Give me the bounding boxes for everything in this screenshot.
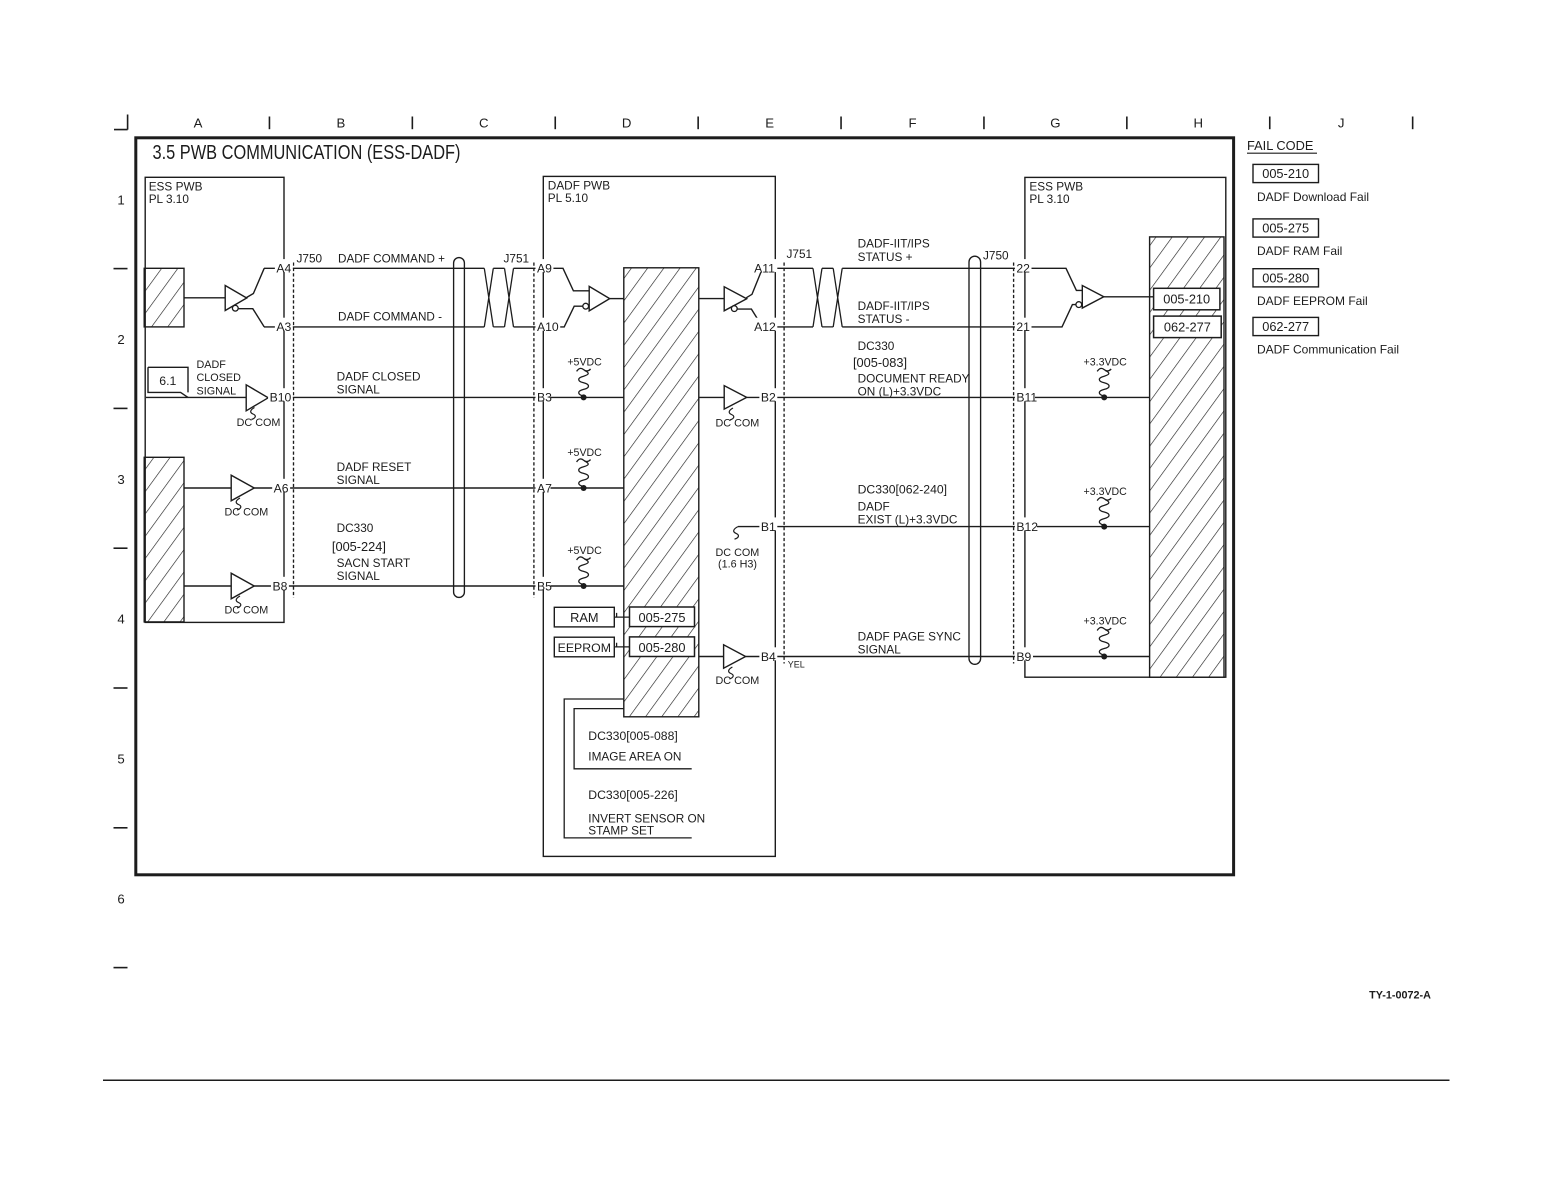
svg-text:2: 2 bbox=[117, 332, 124, 347]
wire block to buffer A6 bbox=[184, 487, 231, 489]
svg-text:DADF-IIT/IPS: DADF-IIT/IPS bbox=[858, 299, 930, 313]
svg-text:A11: A11 bbox=[754, 262, 775, 276]
svg-text:SIGNAL: SIGNAL bbox=[337, 473, 381, 487]
svg-text:22: 22 bbox=[1016, 262, 1030, 276]
dc com curl U9 bbox=[729, 667, 734, 679]
svg-text:5: 5 bbox=[117, 752, 124, 767]
fail box 005-280 bbox=[630, 637, 695, 657]
svg-text:DADF-IIT/IPS: DADF-IIT/IPS bbox=[858, 237, 930, 251]
inversion bubble U2 bbox=[583, 303, 589, 309]
svg-text:+3.3VDC: +3.3VDC bbox=[1084, 357, 1128, 369]
hatched block DADF internal bbox=[624, 268, 699, 717]
wire B9 to block with +3.3VDC pullup bbox=[1033, 656, 1150, 658]
svg-text:SACN START: SACN START bbox=[337, 556, 411, 570]
pin A4 bbox=[275, 259, 293, 272]
svg-text:005-275: 005-275 bbox=[639, 610, 686, 625]
bottom separator rule bbox=[103, 1079, 1450, 1081]
svg-text:J750: J750 bbox=[983, 249, 1009, 263]
svg-text:J751: J751 bbox=[787, 247, 813, 261]
pin 22 bbox=[1015, 259, 1032, 272]
inversion bubble U1 bbox=[232, 305, 238, 311]
svg-text:B5: B5 bbox=[537, 579, 552, 593]
svg-text:IMAGE AREA ON: IMAGE AREA ON bbox=[588, 750, 681, 764]
dc com curl U3 bbox=[251, 408, 256, 420]
pin B2 bbox=[759, 388, 777, 401]
svg-text:STAMP SET: STAMP SET bbox=[588, 824, 654, 838]
dc com curl U7 bbox=[729, 408, 734, 420]
svg-text:DC COM: DC COM bbox=[716, 418, 760, 430]
svg-text:DADF RESET: DADF RESET bbox=[337, 460, 412, 474]
svg-text:DADF: DADF bbox=[197, 359, 227, 371]
pin A9 bbox=[536, 259, 554, 272]
svg-text:062-277: 062-277 bbox=[1262, 319, 1309, 334]
op-amp U8 line receiver ESS bbox=[1082, 286, 1104, 309]
svg-text:DADF: DADF bbox=[858, 500, 890, 514]
svg-text:RAM: RAM bbox=[570, 610, 598, 625]
main border frame bbox=[136, 138, 1234, 875]
fan-out to A12 (inverted) bbox=[737, 309, 762, 327]
twisted pair crossing right bbox=[813, 268, 842, 327]
svg-text:CLOSED: CLOSED bbox=[197, 372, 242, 384]
svg-text:DC330[062-240]: DC330[062-240] bbox=[858, 483, 947, 497]
svg-text:4: 4 bbox=[117, 612, 124, 627]
op-amp U4 buffer DADF RESET bbox=[231, 475, 254, 501]
op-amp U1 line driver ESS bbox=[225, 286, 247, 311]
op-amp U2 line receiver DADF bbox=[589, 286, 610, 311]
op-amp U5 buffer SCAN START bbox=[231, 573, 254, 599]
svg-text:G: G bbox=[1050, 116, 1060, 131]
svg-text:DC COM: DC COM bbox=[237, 417, 281, 429]
pin B4 bbox=[759, 647, 777, 660]
svg-text:PL 5.10: PL 5.10 bbox=[548, 191, 589, 205]
svg-text:A12: A12 bbox=[754, 320, 776, 334]
svg-text:A7: A7 bbox=[537, 481, 552, 495]
svg-text:DC COM: DC COM bbox=[225, 605, 269, 617]
svg-text:PL 3.10: PL 3.10 bbox=[1029, 192, 1070, 206]
pin A6 bbox=[272, 479, 290, 492]
svg-text:H: H bbox=[1194, 116, 1204, 131]
fan-in from A10 (inverted) bbox=[556, 306, 582, 327]
svg-text:[005-224]: [005-224] bbox=[332, 539, 386, 554]
fail code box 005-275 bbox=[1253, 219, 1319, 237]
svg-text:ON (L)+3.3VDC: ON (L)+3.3VDC bbox=[858, 384, 942, 398]
svg-text:005-280: 005-280 bbox=[639, 640, 686, 655]
dc com curl U5 bbox=[236, 596, 241, 608]
svg-text:B8: B8 bbox=[272, 579, 287, 593]
wire B4 to B9 DADF PAGE SYNC SIGNAL bbox=[746, 656, 1017, 658]
svg-text:1: 1 bbox=[117, 192, 124, 207]
DADF PWB box PL 5.10 bbox=[543, 176, 775, 856]
svg-text:DC COM: DC COM bbox=[716, 675, 760, 687]
wire B10 to B3 DADF CLOSED SIGNAL bbox=[268, 396, 537, 398]
resistor +5VDC pullup at B3 bbox=[551, 396, 624, 398]
svg-text:A4: A4 bbox=[276, 262, 291, 276]
svg-text:6.1: 6.1 bbox=[159, 374, 176, 388]
svg-text:B4: B4 bbox=[761, 650, 776, 664]
pin A7 bbox=[536, 479, 554, 492]
fail code box 062-277 bbox=[1253, 317, 1319, 335]
svg-text:3.5 PWB COMMUNICATION (ESS-DAD: 3.5 PWB COMMUNICATION (ESS-DADF) bbox=[153, 141, 461, 164]
connector J751 right dashed line bbox=[783, 263, 785, 664]
column tick marks bbox=[268, 117, 270, 130]
svg-text:SIGNAL: SIGNAL bbox=[337, 569, 381, 583]
svg-text:DADF CLOSED: DADF CLOSED bbox=[337, 370, 421, 384]
svg-text:SIGNAL: SIGNAL bbox=[858, 642, 902, 656]
pin B10 bbox=[268, 388, 293, 401]
wire block to buffer B8 bbox=[184, 585, 231, 587]
svg-text:F: F bbox=[908, 116, 916, 131]
svg-text:B12: B12 bbox=[1016, 520, 1038, 534]
svg-text:DADF Communication Fail: DADF Communication Fail bbox=[1257, 343, 1399, 357]
svg-text:SIGNAL: SIGNAL bbox=[337, 383, 381, 397]
RAM box bbox=[554, 607, 614, 627]
op-amp U3 buffer DADF CLOSED bbox=[246, 385, 268, 411]
svg-text:005-275: 005-275 bbox=[1262, 221, 1309, 236]
pin B3 bbox=[536, 388, 554, 401]
svg-text:DADF COMMAND -: DADF COMMAND - bbox=[338, 310, 442, 324]
wire A6 to A7 DADF RESET SIGNAL bbox=[254, 487, 537, 489]
inversion bubble U8 bbox=[1076, 302, 1082, 308]
svg-text:DC330: DC330 bbox=[337, 521, 374, 535]
svg-text:EXIST (L)+3.3VDC: EXIST (L)+3.3VDC bbox=[858, 513, 958, 527]
op-amp U7 buffer DOCUMENT READY bbox=[724, 386, 747, 410]
pin A3 bbox=[275, 318, 293, 331]
wire DADF block to driver U6 bbox=[699, 298, 724, 300]
svg-text:+5VDC: +5VDC bbox=[567, 545, 602, 557]
svg-text:E: E bbox=[765, 116, 774, 131]
svg-text:[005-083]: [005-083] bbox=[853, 355, 907, 370]
pin 21 bbox=[1015, 318, 1032, 331]
svg-text:DADF COMMAND +: DADF COMMAND + bbox=[338, 251, 445, 265]
fail code box 005-280 bbox=[1253, 269, 1319, 287]
op-amp U9 buffer PAGE SYNC bbox=[724, 645, 746, 669]
svg-text:YEL: YEL bbox=[788, 660, 805, 670]
svg-text:DC330[005-226]: DC330[005-226] bbox=[588, 788, 677, 802]
svg-text:DC330: DC330 bbox=[858, 339, 895, 353]
pin B9 bbox=[1015, 647, 1033, 660]
connector J750 left dashed line bbox=[293, 263, 295, 598]
svg-text:STATUS +: STATUS + bbox=[858, 250, 913, 264]
svg-text:FAIL CODE: FAIL CODE bbox=[1247, 138, 1313, 153]
wire B12 to block with +3.3VDC pullup bbox=[1037, 526, 1150, 528]
svg-text:DC COM: DC COM bbox=[225, 507, 269, 519]
hatched block ESS left upper bbox=[144, 268, 184, 327]
wire RAM to 005-275 bbox=[614, 613, 629, 617]
svg-text:J: J bbox=[1338, 116, 1345, 131]
dc com source curl B1 bbox=[734, 527, 739, 540]
svg-text:A9: A9 bbox=[537, 262, 552, 276]
fan-in from A9 bbox=[552, 268, 590, 291]
row tick marks bbox=[114, 268, 128, 270]
svg-text:(1.6 H3): (1.6 H3) bbox=[718, 559, 757, 571]
wire 6.1 to buffer bbox=[146, 396, 246, 398]
svg-text:21: 21 bbox=[1016, 320, 1030, 334]
pin A12 bbox=[753, 318, 778, 331]
pin B12 bbox=[1015, 517, 1040, 530]
svg-text:A: A bbox=[194, 116, 203, 131]
svg-text:D: D bbox=[622, 116, 632, 131]
wire DADF block to buffer B4 bbox=[699, 656, 724, 658]
svg-text:A6: A6 bbox=[274, 481, 289, 495]
wire B8 to B5 SACN START SIGNAL bbox=[254, 585, 537, 587]
svg-text:DC330[005-088]: DC330[005-088] bbox=[588, 729, 677, 743]
svg-text:EEPROM: EEPROM bbox=[558, 641, 611, 655]
fail code box 005-210 bbox=[1253, 164, 1319, 182]
svg-text:B2: B2 bbox=[761, 391, 776, 405]
svg-text:PL 3.10: PL 3.10 bbox=[149, 192, 190, 206]
svg-text:005-210: 005-210 bbox=[1163, 292, 1210, 307]
cable shield left bbox=[454, 258, 465, 598]
svg-text:B9: B9 bbox=[1016, 650, 1031, 664]
ESS PWB right box PL 3.10 bbox=[1025, 177, 1226, 677]
connector J751 left dashed line bbox=[533, 263, 535, 598]
wire DADF block to buffer B2 bbox=[699, 396, 724, 398]
svg-text:B: B bbox=[337, 116, 346, 131]
svg-text:C: C bbox=[479, 116, 489, 131]
wire B1 to B12 DADF EXIST bbox=[738, 526, 1017, 528]
corner mark top-left bbox=[114, 115, 128, 130]
ESS PWB left box PL 3.10 bbox=[145, 177, 284, 622]
op-amp U6 line driver DADF bbox=[724, 287, 747, 311]
pin A11 bbox=[753, 259, 778, 272]
wire DADF-IIT/IPS STATUS + (A11 to 22) bbox=[776, 267, 813, 269]
EEPROM box bbox=[554, 637, 614, 657]
wire B2 to B11 DOCUMENT READY bbox=[747, 396, 1017, 398]
callout bracket IMAGE AREA ON bbox=[574, 709, 692, 769]
svg-text:6: 6 bbox=[117, 891, 124, 906]
wire DADF COMMAND + (A4 to A9) bbox=[264, 267, 484, 269]
resistor +5VDC pullup at A7 bbox=[551, 487, 624, 489]
svg-text:DADF Download Fail: DADF Download Fail bbox=[1257, 190, 1369, 204]
wire U8 output to 005-210 box bbox=[1104, 296, 1154, 298]
svg-text:DADF EEPROM Fail: DADF EEPROM Fail bbox=[1257, 294, 1368, 308]
fan-out to A3 (inverted) bbox=[238, 309, 264, 327]
svg-text:SIGNAL: SIGNAL bbox=[197, 385, 237, 397]
wire EEPROM to 005-280 bbox=[614, 643, 629, 647]
svg-text:J751: J751 bbox=[504, 251, 530, 265]
pin A10 bbox=[536, 318, 561, 331]
callout bracket INVERT SENSOR ON STAMP SET bbox=[564, 699, 692, 838]
pin B1 bbox=[759, 517, 777, 530]
wire DADF COMMAND - (A3 to A10) bbox=[264, 326, 484, 328]
svg-text:DOCUMENT READY: DOCUMENT READY bbox=[858, 371, 970, 385]
svg-text:DADF PAGE SYNC: DADF PAGE SYNC bbox=[858, 629, 962, 643]
wire U2 output to DADF block bbox=[610, 298, 624, 300]
dc com curl U4 bbox=[236, 498, 241, 510]
svg-text:062-277: 062-277 bbox=[1164, 319, 1211, 334]
hatched block ESS right internal bbox=[1150, 237, 1224, 677]
svg-text:B3: B3 bbox=[537, 391, 552, 405]
svg-text:005-210: 005-210 bbox=[1262, 166, 1309, 181]
connector J750 right dashed line bbox=[1013, 263, 1015, 664]
svg-text:+3.3VDC: +3.3VDC bbox=[1084, 486, 1128, 498]
svg-text:A10: A10 bbox=[537, 320, 559, 334]
svg-text:STATUS -: STATUS - bbox=[858, 312, 910, 326]
pin B11 bbox=[1015, 388, 1040, 401]
svg-text:+5VDC: +5VDC bbox=[567, 447, 602, 459]
wire from hatched block to driver bbox=[184, 297, 225, 299]
resistor +5VDC pullup at B5 bbox=[551, 585, 624, 587]
twisted pair crossing left bbox=[484, 268, 513, 327]
fan-out to A11 bbox=[746, 268, 762, 298]
svg-text:A3: A3 bbox=[276, 320, 291, 334]
svg-text:B11: B11 bbox=[1016, 391, 1037, 405]
pin B8 bbox=[271, 577, 289, 590]
wire DADF-IIT/IPS STATUS - (A12 to 21) bbox=[776, 326, 813, 328]
fail box 005-275 bbox=[630, 607, 695, 627]
pin B5 bbox=[536, 577, 554, 590]
svg-text:005-280: 005-280 bbox=[1262, 270, 1309, 285]
svg-text:DADF RAM Fail: DADF RAM Fail bbox=[1257, 244, 1342, 258]
inversion bubble U6 bbox=[731, 306, 737, 312]
svg-text:TY-1-0072-A: TY-1-0072-A bbox=[1369, 989, 1431, 1001]
fan-in from 21 (inverted) bbox=[1032, 305, 1076, 327]
fan-out to A4 bbox=[246, 268, 265, 298]
hatched block ESS left lower bbox=[144, 457, 184, 622]
wire B11 to block with +3.3VDC pullup bbox=[1035, 396, 1150, 398]
svg-text:3: 3 bbox=[117, 472, 124, 487]
svg-text:+5VDC: +5VDC bbox=[567, 357, 602, 369]
svg-text:B1: B1 bbox=[761, 520, 776, 534]
svg-text:J750: J750 bbox=[297, 251, 323, 265]
fail box 005-210 on block bbox=[1154, 288, 1220, 310]
svg-text:B10: B10 bbox=[270, 391, 292, 405]
cable shield right bbox=[969, 256, 981, 664]
svg-text:DC COM: DC COM bbox=[716, 547, 760, 559]
svg-text:+3.3VDC: +3.3VDC bbox=[1084, 616, 1128, 628]
fail box 062-277 on block bbox=[1154, 316, 1222, 338]
node 6.1 flag bbox=[148, 367, 188, 397]
fan-in from 22 bbox=[1032, 268, 1083, 290]
